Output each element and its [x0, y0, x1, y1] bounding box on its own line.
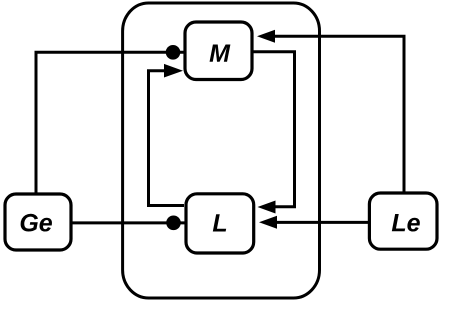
svg-text:Ge: Ge	[19, 209, 52, 237]
node Ge	[5, 194, 71, 250]
arrowhead into M left	[164, 64, 183, 78]
container boundary	[123, 3, 320, 298]
node M	[185, 22, 252, 80]
arrowhead into L right upper	[258, 201, 276, 214]
svg-text:Le: Le	[391, 209, 420, 237]
svg-text:L: L	[212, 209, 227, 237]
svg-text:M: M	[209, 40, 231, 68]
junction dot at L input	[166, 216, 181, 231]
wire M to L loop	[252, 52, 295, 207]
wire Ge to M	[36, 52, 184, 193]
wire Ge to L	[71, 221, 185, 224]
node L	[186, 194, 254, 253]
junction dot at M input	[166, 45, 181, 60]
wire Le to L	[271, 221, 369, 224]
wire Le to M	[268, 36, 404, 193]
node Le	[369, 193, 437, 249]
arrowhead into L right lower	[259, 216, 277, 229]
arrowhead into M right	[257, 30, 275, 43]
wire L to M feedback loop	[149, 71, 185, 206]
